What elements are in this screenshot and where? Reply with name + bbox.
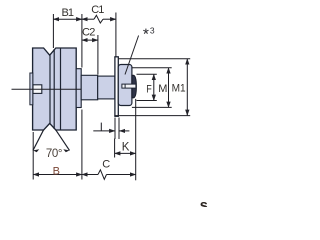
svg-text:K: K — [122, 141, 130, 153]
stud section A — [81, 75, 98, 100]
dimension C2 — [82, 35, 98, 75]
collar step right of wheel — [76, 69, 81, 108]
svg-text:M1: M1 — [172, 82, 186, 94]
dimension B — [33, 110, 82, 180]
wheel (V-groove roller outer ring) — [33, 48, 77, 130]
svg-text:70°: 70° — [46, 148, 62, 160]
K dimension — [115, 99, 136, 180]
wheel internal vertical lines — [50, 48, 61, 130]
svg-text:C: C — [102, 159, 110, 171]
dimension C1 (with break) — [82, 13, 116, 57]
dimension F — [137, 74, 157, 100]
*3 note with leader — [125, 36, 139, 75]
svg-text:M: M — [158, 83, 167, 95]
J dim (wall thickness) with perpendicular symbol — [93, 118, 129, 140]
left side washer tab — [30, 73, 33, 105]
mounting wall (two vertical lines) — [114, 57, 119, 117]
screwdriver slot — [122, 84, 136, 88]
70 degree groove angle — [33, 130, 70, 151]
hex socket (white square at left) — [33, 85, 42, 94]
stud end cap — [132, 75, 137, 98]
svg-text:3: 3 — [150, 26, 155, 36]
svg-text:C2: C2 — [82, 26, 95, 38]
svg-text:B1: B1 — [62, 7, 74, 19]
svg-text:B: B — [53, 166, 60, 178]
svg-text:C1: C1 — [91, 4, 104, 16]
dimension C (with break) — [82, 170, 136, 180]
dimension M1 — [115, 59, 191, 116]
svg-text:F: F — [146, 84, 152, 96]
dimension M — [132, 68, 172, 108]
centerline — [12, 88, 82, 90]
svg-text:s: s — [200, 198, 208, 207]
nut behind wall — [118, 65, 132, 106]
stud section B (thread) — [98, 76, 115, 99]
dimension B1 — [53, 14, 82, 68]
